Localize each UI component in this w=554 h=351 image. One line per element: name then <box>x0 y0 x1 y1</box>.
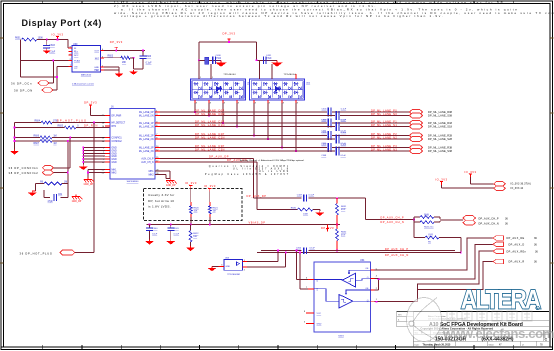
resistor R632 49.9 <box>336 229 347 241</box>
svg-text:Quartus II Standard = 80MHz: Quartus II Standard = 80MHz <box>209 165 290 168</box>
wire DP_AUX route REn <box>375 251 493 302</box>
svg-text:DP_ML_LANE_N0: DP_ML_LANE_N0 <box>371 112 397 116</box>
wire <box>35 184 67 198</box>
svg-text:1M: 1M <box>53 143 56 145</box>
net oval DP_ML_LANE_P2 <box>410 133 423 138</box>
wire <box>243 250 279 262</box>
net oval DP_ML_LANE_N1 <box>410 124 423 129</box>
wire DP_HOT_PLUG drop <box>75 123 94 253</box>
ground <box>256 59 283 66</box>
svg-text:ML_LANE_3P: ML_LANE_3P <box>139 147 154 150</box>
junction <box>46 39 59 41</box>
svg-text:MH1: MH1 <box>112 170 118 172</box>
svg-text:47pF: 47pF <box>48 201 54 203</box>
svg-text:36 DP_HOT_PLUG: 36 DP_HOT_PLUG <box>20 251 53 255</box>
wire ESD lane drops <box>194 100 298 152</box>
capacitor C307 <box>322 143 347 152</box>
wire <box>130 58 143 69</box>
net DP_HOT_PLUG off-page <box>20 250 75 255</box>
resistor R608 1M <box>40 181 67 185</box>
U64 pin stubs <box>304 268 377 323</box>
svg-text:IO_3V3: IO_3V3 <box>464 170 476 174</box>
svg-text:DP_AUX_DE: DP_AUX_DE <box>507 237 525 240</box>
svg-text:DP_AUX_DP: DP_AUX_DP <box>247 194 267 198</box>
label TPD4E004 U61 <box>223 74 236 76</box>
net oval DP_ML_LANE_P3 <box>410 145 423 150</box>
net oval IO_3V3 a <box>494 181 506 186</box>
svg-text:C603: C603 <box>49 45 55 47</box>
svg-text:0.1uF: 0.1uF <box>341 119 347 121</box>
net label DP_AUX_CH_N rail <box>385 253 409 257</box>
net name DP_ML_LANE_R2 <box>428 135 453 138</box>
svg-text:GND_DP: GND_DP <box>72 201 82 203</box>
svg-text:38 DP_CONFIG2: 38 DP_CONFIG2 <box>9 171 39 175</box>
svg-text:voltage + ground reference dif: voltage + ground reference differences b… <box>121 14 444 18</box>
svg-text:DP_ML_LANE_N1: DP_ML_LANE_N1 <box>371 123 397 127</box>
power DP_3V3 (connector) <box>84 100 97 108</box>
svg-text:8: 8 <box>304 311 305 313</box>
svg-text:AUX_CH_P: AUX_CH_P <box>141 158 154 161</box>
svg-text:is 1.8V LVDS.: is 1.8V LVDS. <box>148 204 171 208</box>
note 0.5A <box>72 83 94 86</box>
wire lane DP_ML_LANE_C2N <box>160 138 410 140</box>
svg-text:DP_AUX_CH_P: DP_AUX_CH_P <box>479 217 499 220</box>
svg-text:0.1uF: 0.1uF <box>266 58 272 60</box>
wire VBIAS rail <box>147 217 341 225</box>
wire lane DP_ML_LANE_C1P <box>160 122 410 124</box>
net name IO_3V3 <box>511 182 531 190</box>
svg-text:PCAS: PCAS <box>74 60 80 63</box>
watermark url <box>442 326 554 341</box>
svg-text:8: 8 <box>255 102 256 104</box>
wire <box>91 108 105 115</box>
wire bias divider <box>336 198 338 251</box>
svg-text:DP_ML_LANE_C3P: DP_ML_LANE_C3P <box>195 144 225 148</box>
svg-text:RTN: RTN <box>112 126 117 128</box>
wire ESD top rail <box>199 41 257 60</box>
svg-text:Auxiliary Channel +/- Bidirect: Auxiliary Channel +/- Bidirectional LVDS… <box>240 159 305 162</box>
wire AUX_CH_P <box>160 159 254 199</box>
net label DP_ML_LANE_P0 <box>371 108 397 112</box>
svg-text:MH1: MH1 <box>149 171 155 173</box>
resistor R622 10K <box>189 225 199 247</box>
wire AUX_CH_N <box>160 162 257 210</box>
title block copyright <box>420 328 493 331</box>
svg-text:0.1uF: 0.1uF <box>341 144 347 146</box>
svg-text:DP_ML_LANE_P3: DP_ML_LANE_P3 <box>371 144 397 148</box>
power DP_3V3 (bias divider) <box>321 225 334 232</box>
svg-text:0.1uF: 0.1uF <box>341 108 347 110</box>
capacitor C305 <box>322 131 347 140</box>
svg-text:www.elecfans.com: www.elecfans.com <box>442 326 554 341</box>
svg-text:10uF: 10uF <box>152 233 158 235</box>
svg-text:TPD4E004: TPD4E004 <box>284 74 297 76</box>
net flag DP_AUX_R <box>493 259 537 264</box>
net label DP_ML_LANE_C0N <box>195 112 225 116</box>
net label DP_AUX_DP <box>209 155 229 159</box>
capacitor C348 termination <box>414 220 462 254</box>
net flag DP_AUX_DE <box>493 236 537 241</box>
svg-text:Thursday, March 26, 2015: Thursday, March 26, 2015 <box>423 344 452 346</box>
net label VBIAS_DP <box>249 220 266 224</box>
power IO_3V3 (regulator input) <box>51 32 63 39</box>
svg-text:0.1uF: 0.1uF <box>174 233 180 235</box>
wire DP_AUX route DE <box>375 238 493 270</box>
svg-text:R607: R607 <box>34 143 40 145</box>
net label DP_ML_LANE_N3 <box>371 147 397 151</box>
net oval IO_3V3 b <box>494 186 506 191</box>
svg-text:NC2: NC2 <box>74 55 79 57</box>
svg-text:R631: R631 <box>341 206 347 208</box>
svg-text:C431: C431 <box>266 55 272 57</box>
junction <box>93 122 95 124</box>
svg-text:DP_AUX_R: DP_AUX_R <box>509 261 525 264</box>
svg-text:10K: 10K <box>194 211 198 213</box>
resistor R605 0 <box>58 125 80 129</box>
title block table <box>397 312 549 347</box>
power IO_3V3 (right b) <box>435 178 447 185</box>
wire CONFIG1 <box>15 137 111 139</box>
svg-text:C430: C430 <box>216 55 222 57</box>
svg-text:4: 4 <box>376 276 377 278</box>
svg-text:DP_ML_LANE_P0: DP_ML_LANE_P0 <box>371 108 397 112</box>
svg-text:R632: R632 <box>341 232 347 234</box>
svg-text:VCC: VCC <box>317 313 322 315</box>
svg-text:DP_PWR: DP_PWR <box>112 115 122 117</box>
svg-text:GND: GND <box>112 148 117 150</box>
svg-text:C341: C341 <box>174 228 180 230</box>
capacitor C303 <box>322 119 347 128</box>
resistor R603 28K <box>104 55 130 64</box>
svg-text:GND: GND <box>317 324 322 326</box>
svg-text:3: 3 <box>304 322 305 324</box>
power IO_3V3 (bias2) <box>204 184 216 192</box>
wire <box>37 40 72 49</box>
svg-text:U64: U64 <box>360 259 365 262</box>
net DP_ON <box>14 88 53 93</box>
net label DP_AUX_DP 2 <box>247 194 267 198</box>
net label DP_AUX_CH_N2 <box>380 220 404 224</box>
svg-text:GND: GND <box>112 162 117 164</box>
net label DP_AUX_CH_P rail <box>385 247 409 251</box>
ground <box>186 246 195 251</box>
resistor R630 100K <box>291 207 313 215</box>
svg-text:GND: GND <box>112 156 117 158</box>
ground GND_DP <box>72 195 83 204</box>
net DP_CONFIG2 <box>9 170 54 175</box>
svg-text:C307: C307 <box>322 144 328 146</box>
svg-text:PegMap Case 19625H & 19785T: PegMap Case 19625H & 19785T <box>205 174 290 176</box>
svg-text:8: 8 <box>196 102 197 104</box>
power IO_3V3 (bias1) <box>185 181 197 189</box>
svg-text:0.1uF: 0.1uF <box>146 63 152 65</box>
svg-text:R620: R620 <box>194 208 200 210</box>
wire buffer inputs <box>296 250 308 289</box>
ground <box>167 240 176 245</box>
wire ESD top pins <box>199 60 296 79</box>
svg-text:C241: C241 <box>428 234 434 236</box>
svg-text:0.1uF: 0.1uF <box>309 194 315 196</box>
net name DP_ML_LANE_S2 <box>428 138 453 141</box>
wire lane DP_ML_LANE_C1N <box>160 126 410 128</box>
wire DP_AUX route D <box>375 244 493 290</box>
wire lane DP_ML_LANE_C3P <box>160 147 410 149</box>
svg-text:SHODM040: SHODM040 <box>127 181 140 183</box>
ground GND_DP (shell right) <box>166 179 177 188</box>
svg-text:1: 1 <box>200 77 201 79</box>
capacitor C430 0.1uF <box>205 55 222 64</box>
svg-text:SET: SET <box>95 58 100 60</box>
ground <box>115 72 124 77</box>
svg-text:DP_ML_LANE_C2N: DP_ML_LANE_C2N <box>195 135 225 139</box>
resistor R604 170K <box>35 120 59 124</box>
svg-text:UL to LVDS: UL to LVDS <box>259 170 290 173</box>
capacitor C306 <box>321 135 346 146</box>
svg-text:OE: OE <box>365 268 369 270</box>
svg-text:C350: C350 <box>296 247 302 249</box>
svg-text:0.1uF: 0.1uF <box>310 247 316 249</box>
svg-text:R603: R603 <box>108 55 114 57</box>
wire AUX P line <box>254 197 366 199</box>
svg-text:OE: OE <box>365 288 369 290</box>
capacitor C304 <box>321 122 346 133</box>
capacitor C308 <box>321 147 346 158</box>
svg-text:ML_LANE_0P: ML_LANE_0P <box>139 111 154 114</box>
pin stubs U6 <box>69 48 104 70</box>
svg-text:GND: GND <box>226 266 231 268</box>
net name DP_ML_LANE_R0 <box>428 111 453 114</box>
svg-text:R640: R640 <box>424 214 430 216</box>
svg-text:ML_LANE_1P: ML_LANE_1P <box>139 122 154 125</box>
svg-text:38 DP_ON: 38 DP_ON <box>14 89 33 93</box>
svg-text:DP, but Arria 10: DP, but Arria 10 <box>148 199 174 203</box>
ALTERA logo <box>461 286 542 315</box>
svg-text:PAD: PAD <box>95 69 100 72</box>
net label DP_ML_LANE_P1 <box>371 119 397 123</box>
svg-text:O: O <box>367 277 369 279</box>
net label DP_ML_LANE_C2N <box>195 135 225 139</box>
svg-text:10K: 10K <box>193 236 197 238</box>
net DP_OCn <box>11 81 49 86</box>
wire <box>87 170 105 178</box>
wire <box>104 50 145 59</box>
svg-text:C301: C301 <box>322 108 328 110</box>
net name DP_AUX_CH_P/N <box>479 217 509 225</box>
svg-text:0.1uF: 0.1uF <box>341 132 347 134</box>
net oval DP_AUX_CH_P <box>463 216 476 225</box>
svg-text:DP_ML_LANE_C1P: DP_ML_LANE_C1P <box>195 119 225 123</box>
svg-text:R630: R630 <box>291 207 297 209</box>
resistor R640 22.1 <box>414 214 463 229</box>
wire DP_AUX_CH_N rail <box>257 251 461 253</box>
svg-text:IO_3V3: IO_3V3 <box>204 184 216 188</box>
svg-text:8: 8 <box>269 102 270 104</box>
ground GND_DP (shell left) <box>84 178 95 187</box>
wire lane DP_ML_LANE_C0P <box>160 111 410 113</box>
wire <box>212 265 224 267</box>
capacitor C347 0.1uF <box>297 194 315 201</box>
svg-text:DP_ML_LANE_N2: DP_ML_LANE_N2 <box>371 135 397 139</box>
svg-text:1: 1 <box>244 260 245 262</box>
wire lane DP_ML_LANE_C2P <box>160 135 410 137</box>
svg-text:GND_DP: GND_DP <box>166 185 176 187</box>
svg-text:0.1uF: 0.1uF <box>216 58 222 60</box>
net label DP_AUX_CH_P <box>380 216 404 220</box>
wire <box>53 76 58 90</box>
wire ESD cap row <box>199 59 277 61</box>
svg-text:8: 8 <box>283 102 284 104</box>
wire DP_AUX_CH_P rail <box>261 250 455 252</box>
svg-text:R622: R622 <box>193 233 199 235</box>
svg-text:IO_3V3: IO_3V3 <box>51 32 63 36</box>
net label DP_ML_LANE_P2 <box>371 132 397 136</box>
svg-text:ML_LANE_2P: ML_LANE_2P <box>139 135 154 138</box>
ground chassis <box>79 165 88 171</box>
resistor R606 1M <box>34 135 57 139</box>
svg-text:ON: ON <box>74 67 78 69</box>
net label DP_RTN <box>84 124 98 128</box>
net label DP_HOT_PLUG <box>57 119 87 123</box>
net label DP_ML_LANE_N2 <box>371 135 397 139</box>
resistor R601 100K <box>15 38 43 41</box>
svg-text:DP_AUX_CH_P: DP_AUX_CH_P <box>385 247 409 251</box>
wire <box>49 60 54 83</box>
svg-text:GND: GND <box>112 150 117 152</box>
capacitor C349 <box>296 247 316 254</box>
svg-text:DP_AUX_D: DP_AUX_D <box>509 243 525 246</box>
svg-text:1: 1 <box>376 299 377 301</box>
svg-text:DP_AUX_CH_N: DP_AUX_CH_N <box>385 253 409 257</box>
svg-text:2: 2 <box>244 270 245 272</box>
dashed note box <box>144 189 243 221</box>
svg-text:DP_AUX_REn: DP_AUX_REn <box>507 250 527 253</box>
svg-text:DP_AUX_CH_P: DP_AUX_CH_P <box>380 216 404 220</box>
svg-text:OUT: OUT <box>94 50 99 52</box>
svg-text:GND: GND <box>112 153 117 155</box>
net label DP_ML_LANE_C1N <box>195 123 225 127</box>
net name DP_ML_LANE_R3 <box>428 147 453 150</box>
svg-text:36 DP_CONFIG1: 36 DP_CONFIG1 <box>9 166 39 170</box>
capacitor C302 <box>321 111 346 122</box>
svg-text:MH2: MH2 <box>149 175 155 177</box>
ground <box>10 150 19 155</box>
net name DP_ML_LANE_S0 <box>428 115 453 118</box>
power DP_3V3 (ESD rail) <box>222 31 235 42</box>
svg-text:1: 1 <box>212 77 213 79</box>
ground <box>28 191 37 196</box>
svg-text:C61: C61 <box>58 194 63 196</box>
svg-text:IO_3V3: IO_3V3 <box>185 181 197 185</box>
svg-text:GND_DP: GND_DP <box>84 184 94 186</box>
J6 right pin stubs <box>155 110 160 174</box>
svg-text:CONFIG1: CONFIG1 <box>112 138 123 140</box>
svg-text:IO_3V3 44: IO_3V3 44 <box>511 187 524 190</box>
svg-text:C606: C606 <box>146 56 152 58</box>
resistor R607 1M <box>34 140 57 145</box>
resistor R620 10K <box>189 189 199 218</box>
net label DP_ML_LANE_N1 <box>371 123 397 127</box>
svg-text:Date:: Date: <box>415 343 420 346</box>
svg-text:Usually 3.3V for: Usually 3.3V for <box>148 193 175 197</box>
svg-text:C308: C308 <box>321 155 327 157</box>
wire RTN <box>15 127 111 129</box>
net oval DP_ML_LANE_P1 <box>410 121 423 126</box>
svg-text:DP_ML_LANE_N3: DP_ML_LANE_N3 <box>371 147 397 151</box>
net flag DP_AUX_REn <box>493 249 538 254</box>
svg-text:TPD4E004: TPD4E004 <box>223 74 236 76</box>
svg-text:IO_3V3: IO_3V3 <box>435 178 447 182</box>
svg-text:DP_ML_LANE_C3N: DP_ML_LANE_C3N <box>195 147 225 151</box>
net label DP_ML_LANE_C0P <box>195 108 225 112</box>
svg-text:MAX14520: MAX14520 <box>81 73 92 76</box>
svg-text:3: 3 <box>221 265 222 267</box>
svg-text:DP_ML_LANE_C0P: DP_ML_LANE_C0P <box>195 108 225 112</box>
net label DP_ML_LANE_C1P <box>195 119 225 123</box>
svg-text:DP_ML_LANE_S0: DP_ML_LANE_S0 <box>428 115 451 118</box>
IC U61 ESD array <box>191 79 252 100</box>
wire <box>21 40 72 78</box>
wire <box>471 177 494 184</box>
svg-text:ML_LANE_3N: ML_LANE_3N <box>139 150 154 153</box>
svg-text:DP_ML_LANE_S3: DP_ML_LANE_S3 <box>428 150 451 153</box>
net DP_CONFIG1 <box>9 166 54 171</box>
svg-text:Display Port (x4): Display Port (x4) <box>22 18 102 28</box>
svg-text:ML_LANE_1N: ML_LANE_1N <box>139 126 154 129</box>
net label DP_ML_LANE_N0 <box>371 112 397 116</box>
connector J6 DisplayPort <box>110 106 155 184</box>
resistor R631 49.9 <box>336 204 347 216</box>
capacitor C340 10uF <box>146 225 158 240</box>
svg-text:AUX_CH_N: AUX_CH_N <box>141 161 154 164</box>
svg-text:DP_ML_LANE_P2: DP_ML_LANE_P2 <box>371 132 397 136</box>
wire <box>104 67 119 72</box>
ground <box>129 70 138 75</box>
svg-text:SN74: SN74 <box>338 335 344 337</box>
svg-text:C305: C305 <box>322 132 328 134</box>
capacitor C610 47pF <box>48 194 63 203</box>
net oval DP_ML_LANE_N0 <box>410 113 423 118</box>
op-amp U6 regulator box <box>72 43 101 77</box>
wire lane DP_ML_LANE_C0N <box>160 115 410 117</box>
svg-text:CONFIG2: CONFIG2 <box>112 141 123 143</box>
capacitor C603 2.2uF <box>43 40 56 54</box>
svg-text:2.2uF: 2.2uF <box>49 52 55 54</box>
net name DP_ML_LANE_S3 <box>428 150 453 153</box>
svg-text:DP_3V3: DP_3V3 <box>84 100 97 104</box>
svg-text:100K: 100K <box>303 214 309 216</box>
svg-text:DP_ML_LANE_S2: DP_ML_LANE_S2 <box>428 138 451 141</box>
svg-text:GND: GND <box>112 159 117 161</box>
wire <box>155 171 170 179</box>
svg-text:TPD2E009M: TPD2E009M <box>227 274 240 276</box>
svg-text:DP_ML_LANE_C1N: DP_ML_LANE_C1N <box>195 123 225 127</box>
capacitor C341 0.1uF <box>167 225 179 240</box>
wire HP detect <box>15 122 111 124</box>
net label DP_AUX_DN <box>227 158 247 162</box>
wire GND bus <box>82 147 105 165</box>
title block doc number <box>435 336 548 342</box>
wire <box>53 137 71 168</box>
net label DP_ML_LANE_C3P <box>195 144 225 148</box>
svg-text:C340: C340 <box>152 228 158 230</box>
svg-text:DP_ML_LANE_C0N: DP_ML_LANE_C0N <box>195 112 225 116</box>
note aux channel <box>240 159 305 162</box>
net oval DP_ML_LANE_N3 <box>410 149 423 154</box>
svg-text:DP_AUX_DP: DP_AUX_DP <box>209 155 229 159</box>
ground <box>198 59 227 66</box>
svg-text:ML_LANE_0N: ML_LANE_0N <box>139 115 154 118</box>
wire CONFIG2 <box>15 140 111 142</box>
